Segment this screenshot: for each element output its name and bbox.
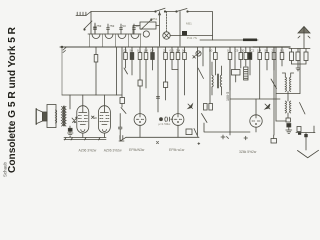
svg-text:0,1: 0,1 bbox=[137, 49, 142, 53]
svg-text:M51: M51 bbox=[186, 21, 192, 25]
svg-text:C4: C4 bbox=[150, 49, 154, 53]
svg-text:2M: 2M bbox=[176, 49, 181, 53]
switch S9 bbox=[194, 129, 198, 138]
wire antenna header bbox=[289, 48, 310, 50]
switch S4 bbox=[198, 47, 204, 79]
resistor R8 bbox=[164, 47, 168, 82]
svg-text:C5: C5 bbox=[123, 49, 127, 53]
resistor arrows R19 bbox=[72, 117, 77, 123]
switch S8 bbox=[121, 108, 126, 114]
svg-text:25: 25 bbox=[272, 49, 276, 53]
svg-text:Consolette G 5 R und York 5 R: Consolette G 5 R und York 5 R bbox=[7, 26, 18, 173]
svg-text:0,1: 0,1 bbox=[227, 49, 232, 53]
svg-text:753: 753 bbox=[96, 24, 101, 28]
mark m3 bbox=[221, 135, 229, 139]
capacitor C10 bbox=[204, 104, 208, 111]
switch S2 bbox=[155, 8, 166, 12]
jack J3 bbox=[196, 51, 201, 56]
mark x1 bbox=[193, 56, 196, 59]
capacitor C6 bbox=[234, 47, 236, 70]
mark m1 bbox=[157, 142, 159, 144]
capacitor C11 bbox=[209, 104, 213, 111]
wire top bus end bbox=[188, 12, 213, 41]
capacitor C1 bbox=[182, 31, 187, 36]
coil bank L1 bbox=[88, 21, 141, 47]
capacitor C17 bbox=[271, 135, 277, 143]
svg-text:25: 25 bbox=[163, 49, 167, 53]
coil L4 bbox=[244, 67, 248, 80]
svg-text:0,1: 0,1 bbox=[280, 49, 285, 53]
svg-text:EF9k/N3w: EF9k/N3w bbox=[129, 148, 145, 152]
mark m0 bbox=[119, 136, 124, 142]
resistor R13 bbox=[228, 47, 232, 90]
resistor R2 bbox=[94, 47, 98, 95]
transformer T1 bbox=[56, 106, 67, 126]
resistor R4 bbox=[124, 47, 128, 74]
wire top bus right bbox=[165, 11, 176, 13]
wire drop D2 bbox=[121, 47, 123, 98]
svg-text:M51: M51 bbox=[152, 17, 158, 21]
ground G2 bbox=[68, 133, 74, 136]
svg-text:μ=1 50kc: μ=1 50kc bbox=[159, 122, 171, 126]
wire coil links bbox=[276, 91, 300, 121]
trimmer bank C2 bbox=[94, 24, 136, 34]
svg-text:0,5: 0,5 bbox=[170, 49, 175, 53]
tube V2 rectifier bbox=[98, 95, 110, 138]
wire link bbox=[172, 69, 178, 71]
mark m4 bbox=[244, 136, 248, 140]
mark m5 bbox=[198, 143, 200, 145]
coupling K1 bbox=[160, 117, 173, 121]
svg-text:50: 50 bbox=[130, 49, 134, 53]
wire drop long bbox=[229, 60, 231, 135]
wire vertical V2 bbox=[166, 12, 168, 32]
resistor R21 bbox=[239, 47, 243, 68]
wire drop D4 bbox=[197, 47, 199, 135]
speaker SP1 bbox=[36, 105, 56, 128]
jack J4 bbox=[143, 31, 149, 37]
capacitor C12 bbox=[120, 98, 125, 108]
svg-text:753: 753 bbox=[109, 24, 114, 28]
wire lamp feed bbox=[170, 35, 212, 37]
svg-text:50: 50 bbox=[265, 49, 269, 53]
antenna A2 bbox=[298, 27, 310, 49]
tube V3 bbox=[134, 114, 146, 138]
wire drop D7 bbox=[273, 47, 275, 135]
resistor R15 bbox=[258, 47, 262, 99]
svg-text:C2: C2 bbox=[251, 49, 255, 53]
resistor R6 bbox=[144, 47, 148, 88]
resistor R17 bbox=[272, 47, 276, 70]
ground G1 bbox=[286, 130, 292, 134]
svg-text:53: 53 bbox=[135, 24, 139, 28]
diode D5 bbox=[188, 104, 193, 109]
svg-text:AZ06 3%2w: AZ06 3%2w bbox=[79, 149, 97, 153]
capacitor C8 bbox=[286, 118, 291, 130]
resistor R10 bbox=[176, 47, 180, 70]
resistor R9 bbox=[170, 47, 174, 70]
wire drop right bbox=[275, 47, 277, 121]
capacitor C16 bbox=[297, 127, 301, 135]
ground arrow bbox=[296, 126, 319, 158]
wire antenna footer bbox=[292, 64, 307, 71]
capacitor C50 bbox=[232, 70, 241, 83]
svg-text:P41 7S: P41 7S bbox=[187, 36, 197, 40]
bus junction dots bbox=[95, 46, 282, 47]
wire drop D1 bbox=[116, 47, 118, 95]
svg-text:C9: C9 bbox=[235, 49, 239, 53]
tube V1 output bbox=[77, 95, 89, 138]
node marks bbox=[92, 116, 97, 119]
heater bus bbox=[64, 138, 106, 141]
switch S6 bbox=[300, 49, 306, 115]
node J1 bbox=[61, 46, 66, 95]
wire vertical V3b bbox=[179, 12, 181, 47]
potentiometer P1 bbox=[133, 19, 159, 34]
capacitor C15 bbox=[151, 47, 155, 70]
wire top bus bbox=[91, 11, 155, 13]
capacitor C18 bbox=[138, 80, 142, 114]
wire bus C bbox=[200, 39, 258, 41]
coil L2 bbox=[282, 73, 293, 91]
resistor R5 bbox=[138, 47, 142, 80]
capacitor C19 bbox=[164, 82, 168, 100]
svg-text:EF9k w1w: EF9k w1w bbox=[169, 148, 185, 152]
resistor R20 bbox=[186, 129, 192, 135]
capacitor C14 bbox=[130, 47, 134, 75]
switch S1 bbox=[84, 21, 97, 33]
svg-text:3Z6k 5%2w: 3Z6k 5%2w bbox=[239, 150, 257, 154]
capacitor C5 bbox=[304, 49, 308, 65]
svg-text:53: 53 bbox=[122, 24, 126, 28]
resistor R1 bbox=[296, 49, 300, 65]
resistor R11 bbox=[183, 47, 187, 95]
capacitor C4 bbox=[290, 49, 294, 65]
capacitor C3 bbox=[243, 39, 257, 42]
wire bus thick segment bbox=[253, 46, 290, 48]
svg-text:50: 50 bbox=[182, 49, 186, 53]
switch S7 bbox=[202, 114, 208, 123]
wire drop D8 bbox=[209, 47, 211, 103]
diode D6 bbox=[265, 104, 270, 109]
resistor R12 bbox=[214, 47, 218, 75]
svg-text:100·5: 100·5 bbox=[226, 92, 230, 101]
capacitor C7 bbox=[248, 47, 252, 75]
svg-text:50: 50 bbox=[209, 49, 213, 53]
coil L3 bbox=[285, 101, 290, 113]
wire heater single bbox=[126, 136, 199, 138]
switch S3 bbox=[176, 9, 188, 13]
capacitor C13 bbox=[118, 114, 126, 142]
switch S5 bbox=[271, 79, 277, 89]
svg-text:1M: 1M bbox=[144, 49, 149, 53]
svg-text:30: 30 bbox=[241, 49, 245, 53]
tube V4 bbox=[172, 70, 184, 138]
svg-text:AZ06 3%2w: AZ06 3%2w bbox=[104, 149, 122, 153]
lamp LA1 bbox=[163, 32, 170, 39]
wire vertical V1 bbox=[158, 12, 160, 47]
resistor R18 bbox=[280, 47, 284, 66]
antenna rake A1 bbox=[76, 12, 91, 22]
transformer T2 bbox=[212, 62, 222, 95]
wire grid line bbox=[230, 98, 280, 100]
wire anode bbox=[69, 95, 71, 128]
wire cathode line bbox=[204, 123, 256, 132]
svg-text:1M: 1M bbox=[257, 49, 262, 53]
wire main bus bbox=[60, 46, 290, 48]
wire screen line bbox=[62, 94, 122, 96]
small labels row bbox=[96, 24, 284, 53]
wire drop D3 bbox=[156, 47, 159, 112]
tube V5 bbox=[250, 99, 262, 127]
resistor R16 bbox=[265, 47, 269, 70]
resistor R14 bbox=[244, 47, 248, 66]
capacitor C9 bbox=[68, 128, 72, 133]
